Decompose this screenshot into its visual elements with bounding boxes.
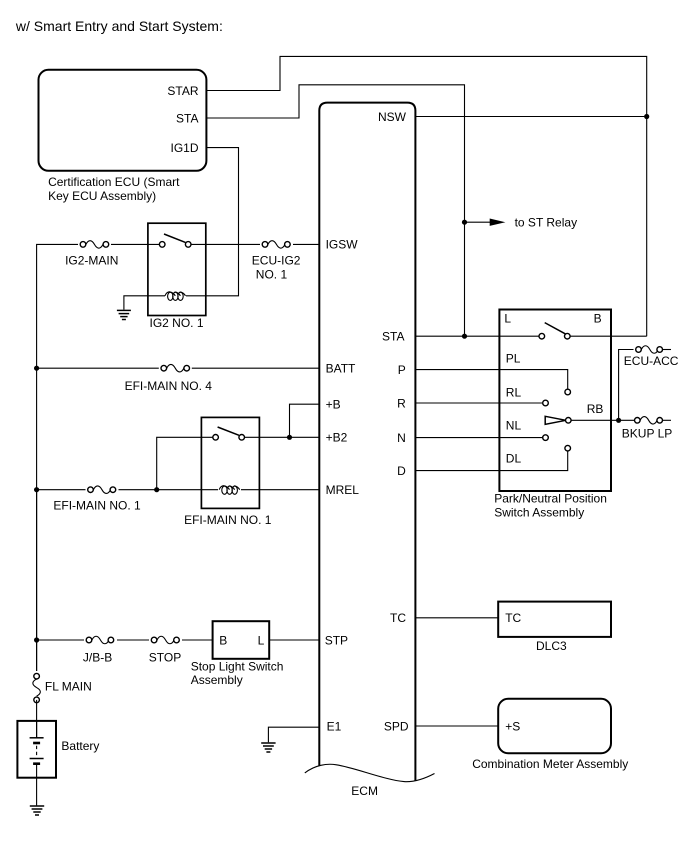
contact NL [543,435,549,441]
wire RB out of box [571,419,637,421]
svg-text:Combination Meter Assembly: Combination Meter Assembly [472,757,628,771]
svg-text:STA: STA [382,330,404,344]
svg-text:w/ Smart Entry and Start Syste: w/ Smart Entry and Start System: [15,18,223,34]
wire STP row left of stop light switch [37,639,213,641]
battery plate short 1 [33,742,40,745]
wedge movable contact NL->RB [545,416,566,424]
battery plate long 2 [30,758,44,760]
wire left trunk down to battery [36,368,38,676]
svg-text:TC: TC [505,611,521,625]
fuse IG2-MAIN [78,238,111,251]
svg-text:Certification ECU (Smart: Certification ECU (Smart [48,175,180,189]
fuse EFI-MAIN NO. 4 [159,362,192,375]
svg-text:STOP: STOP [149,650,181,664]
svg-text:R: R [397,396,406,410]
wire BATT row [37,367,320,369]
wire STP row right of stop light switch [269,639,319,641]
node +B junction on +B2 wire [287,435,292,440]
svg-text:IG2 NO. 1: IG2 NO. 1 [150,316,204,330]
svg-text:E1: E1 [327,720,342,734]
svg-text:N: N [397,431,406,445]
battery bottom lead [36,764,38,806]
relay IG2 coil [165,292,186,301]
relay EFI switch contacts [213,427,245,443]
svg-text:+B2: +B2 [326,431,348,445]
fuse FL MAIN vertical [30,671,43,705]
svg-text:EFI-MAIN NO. 4: EFI-MAIN NO. 4 [125,379,213,393]
svg-text:Park/Neutral Position: Park/Neutral Position [494,492,607,506]
wire B terminal from right vertical into park/neutral box [567,335,646,337]
park/neutral position switch box [499,310,611,492]
svg-text:+S: +S [505,719,520,733]
contact RB [566,418,572,424]
svg-text:Assembly: Assembly [191,673,243,687]
node MREL junction left trunk [34,487,39,492]
fuse J/B-B [84,634,117,647]
svg-text:Switch Assembly: Switch Assembly [494,506,584,520]
relay IG2 switch contacts [159,234,191,250]
battery plate short 2 [33,762,40,765]
fuse ECU-IG2 NO. 1 [260,238,293,251]
relay EFI coil [218,484,241,497]
svg-text:FL MAIN: FL MAIN [45,680,92,694]
svg-text:to ST Relay: to ST Relay [515,216,577,230]
svg-text:Key ECU Assembly): Key ECU Assembly) [48,189,156,203]
svg-text:L: L [258,634,265,648]
svg-text:RB: RB [587,402,604,416]
node BATT junction [34,366,39,371]
contact RL [543,400,549,406]
fuse STOP [149,634,182,647]
node RB junction [616,418,621,423]
wire P row to PL contact [415,370,567,390]
wire STA row from ECM to park/neutral switch [415,335,541,337]
certification ECU U1 box [39,70,207,171]
battery internal: top lead [36,721,38,738]
wire STAR from Certification ECU to top bus and down right side [206,56,646,336]
wire IGSW row: left trunk to ECM through IG2-MAIN fuse, IG2 relay, ECU-IG2 fuse [37,244,320,368]
svg-text:IG2-MAIN: IG2-MAIN [65,254,118,268]
svg-text:D: D [397,464,406,478]
arrow to ST Relay [465,221,491,223]
wire MREL row [37,489,320,491]
svg-text:ECM: ECM [351,784,378,798]
wire E1 to ground [268,727,319,742]
node relay branch junction [154,487,159,492]
fuse BKUP LP [635,417,672,425]
fuse ECU-ACC [634,343,672,356]
ground IG2 relay [117,310,131,319]
node STP junction left trunk [34,637,39,642]
svg-text:EFI-MAIN NO. 1: EFI-MAIN NO. 1 [53,499,141,513]
wire left trunk continues down [36,490,38,677]
stop light switch assembly box [213,621,270,659]
wire +B branch [290,404,320,437]
ECM bottom wavy break [305,764,435,781]
svg-text:DL: DL [506,452,522,466]
svg-text:DLC3: DLC3 [536,639,567,653]
wire R row to RL contact [415,402,545,404]
node STA junction with trunk [462,334,467,339]
svg-text:BATT: BATT [326,362,356,376]
ECM U2 box outline [319,103,415,781]
wire FL MAIN to battery [36,700,38,738]
svg-text:ECU-ACC: ECU-ACC [624,354,679,368]
svg-text:PL: PL [506,351,521,365]
svg-text:NL: NL [506,419,522,433]
svg-text:NSW: NSW [378,110,407,124]
svg-text:L: L [504,311,511,325]
svg-text:STP: STP [325,633,348,647]
contact DL [565,445,571,451]
svg-text:BKUP LP: BKUP LP [622,427,672,441]
ground E1 [261,743,275,752]
svg-text:RL: RL [506,386,522,400]
svg-text:+B: +B [326,398,341,412]
wire IG2 coil to ground [124,296,165,310]
wire N row to NL contact [415,437,545,439]
svg-text:EFI-MAIN NO. 1: EFI-MAIN NO. 1 [184,513,272,527]
wire TC from ECM to DLC3 [415,617,498,619]
svg-text:B: B [594,311,602,325]
wire NSW from ECM to right vertical [415,116,646,118]
battery dashed link [36,746,38,757]
svg-text:B: B [219,634,227,648]
DLC3 box [498,602,611,637]
park/neutral STA switch contacts [539,323,570,342]
svg-text:Stop Light Switch: Stop Light Switch [191,659,284,673]
svg-text:NO. 1: NO. 1 [256,267,288,281]
wire ECU-ACC branch [619,350,639,421]
wire +B2 row [242,436,320,438]
contact PL [565,389,571,395]
combination meter assembly box [498,699,611,753]
svg-text:IG1D: IG1D [170,141,198,155]
battery box [17,721,56,778]
battery plate long 1 [30,737,44,739]
svg-text:Battery: Battery [61,739,99,753]
wire EFI relay switch to MREL branch [157,437,216,489]
wire IG1D from Certification ECU down to IG2 relay coil [186,148,239,296]
svg-text:SPD: SPD [384,719,409,733]
node NSW junction [644,114,649,119]
relay EFI-MAIN NO. 1 box [201,417,259,508]
svg-text:IGSW: IGSW [326,238,359,252]
wire D row to DL contact [415,451,567,470]
relay IG2 NO. 1 box [148,223,206,315]
svg-text:ECU-IG2: ECU-IG2 [252,254,301,268]
fuse EFI-MAIN NO. 1 [86,484,119,497]
svg-text:P: P [398,363,406,377]
wire STA from Certification ECU to vertical trunk [206,85,464,336]
wire SPD from ECM to combination meter [415,725,498,727]
svg-text:J/B-B: J/B-B [83,650,112,664]
svg-text:STAR: STAR [167,84,198,98]
svg-text:STA: STA [176,111,198,125]
svg-text:TC: TC [390,611,406,625]
node to ST relay branch junction [462,220,467,225]
svg-text:MREL: MREL [326,483,360,497]
ground battery [30,806,44,815]
